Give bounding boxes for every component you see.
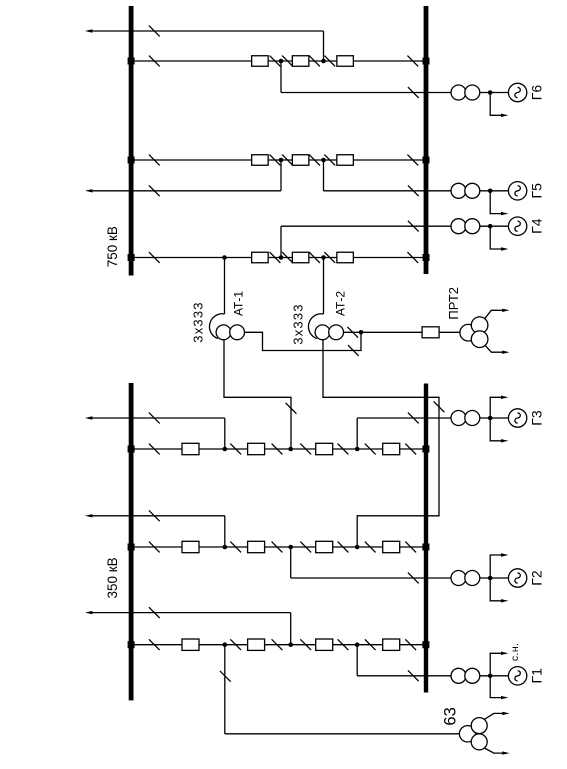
junction 750kV bay2 bus1 [128, 157, 135, 164]
disconnector АТ-2 LV [347, 327, 358, 338]
svg-text:Г4: Г4 [529, 218, 545, 234]
svg-text:АТ-2: АТ-2 [333, 291, 347, 316]
node 750kV bay3 tap1 [279, 255, 284, 260]
wire G2 riser [290, 547, 292, 578]
arrow ПРТ2 down [502, 351, 509, 354]
node Г6 aux tap [488, 90, 493, 95]
wire АТ-1 LV lead [244, 332, 361, 350]
transformer Г2 winding 2 [465, 571, 480, 586]
wire 750kV bay1 row [131, 60, 426, 62]
wire АТ-1 HV riser [224, 258, 226, 315]
breaker 350kV bay1 Q1 [182, 443, 199, 454]
junction 350kV bay2 bus2 [422, 544, 429, 551]
wire W5 riser [290, 613, 292, 645]
transformer Г6 winding 2 [465, 85, 480, 100]
breaker 750kV bay2 Q1 [252, 155, 269, 166]
disconnector 750kV bay2 bus2 [407, 155, 418, 166]
wire line feeder W5 [88, 612, 291, 614]
busbar 750kV system 2 (right) [424, 6, 429, 274]
arrow 63 down [502, 751, 509, 754]
arrow Г1 aux up [501, 652, 508, 655]
generator Г4 circle [508, 217, 526, 235]
generator Г6 circle [508, 83, 526, 101]
autotransformer АТ-1 series hook [209, 314, 224, 339]
disconnector 350kV bay3 Q3 left [300, 639, 311, 650]
disconnector 350kV bay2 Q3 right [338, 542, 349, 553]
disconnector 350kV bay1 Q4 left [365, 444, 376, 455]
junction 350kV bay3 bus2 [422, 641, 429, 648]
transformer Г4 winding 1 [451, 219, 466, 234]
autotransformer АТ-2 winding 1 [315, 325, 330, 340]
breaker 750kV bay1 Q3 [337, 56, 354, 67]
disconnector 63 [220, 671, 231, 682]
wire W4 riser [224, 516, 226, 547]
wire G1 riser [356, 645, 358, 676]
disconnector 750kV bay2 Q2 right [309, 155, 320, 166]
generator Г2 circle [508, 569, 526, 587]
wire 750kV bay2 row [131, 159, 426, 161]
node 350kV bay2 tap3 [355, 545, 360, 550]
node 350kV bay1 tap3 [355, 447, 360, 452]
junction 750kV bay3 bus1 [128, 254, 135, 261]
disconnector 750kV bay3 Q1 right [270, 252, 281, 263]
node 750kV bay1 tap1 [279, 59, 284, 64]
node 350kV bay1 tap1 [223, 447, 228, 452]
autotransformer АТ-1 winding 2 [230, 325, 245, 340]
arrow Г4 aux down [501, 247, 508, 250]
svg-text:350 кВ: 350 кВ [105, 557, 120, 598]
node Г4 aux tap [488, 224, 493, 229]
wire G3 riser [356, 418, 358, 449]
breaker 750kV bay3 Q3 [337, 252, 354, 263]
transformer Г5 winding 2 [465, 183, 480, 198]
disconnector 350kV bay2 bus2 [405, 542, 416, 553]
disconnector 350kV bay1 bus1 [149, 444, 160, 455]
generator Г3 sine symbol [515, 413, 520, 423]
disconnector 350kV bay3 Q2 right [272, 639, 283, 650]
wire generator Г2 lead [291, 577, 452, 579]
disconnector 350kV bay3 bus1 [149, 639, 160, 650]
disconnector 350kV bay3 Q3 right [338, 639, 349, 650]
wire Г2 transformer to generator [480, 577, 509, 579]
wire 350kV bay2 row [131, 546, 426, 548]
wire line feeder W1 [88, 30, 324, 32]
transformer ПРТ2 winding 2 [471, 317, 488, 334]
disconnector Г5 [408, 185, 419, 196]
wire G4 tap riser [280, 226, 282, 257]
breaker 750kV bay3 Q2 [292, 252, 309, 263]
autotransformer АТ-1 winding 1 [216, 325, 231, 340]
svg-text:АТ-1: АТ-1 [232, 291, 246, 316]
wire Г3 transformer to generator [480, 417, 509, 419]
transformer 63 winding 1 [459, 726, 475, 742]
wire Г1 aux branch up [490, 653, 502, 676]
wire 63 output up [484, 713, 503, 719]
node 750kV bay1 tap2 [321, 59, 326, 64]
wire АТ-2 HV riser [323, 258, 325, 315]
breaker 750kV bay1 Q1 [252, 56, 269, 67]
disconnector Г3 [408, 413, 419, 424]
breaker 750kV bay2 Q2 [292, 155, 309, 166]
svg-text:750 кВ: 750 кВ [105, 226, 120, 267]
wire W1 riser to tap2 [323, 31, 325, 61]
disconnector 750kV bay2 Q2 left [282, 155, 293, 166]
wire Г2 aux branch down [490, 578, 502, 601]
disconnector 750kV bay1 Q1 right [270, 56, 281, 67]
disconnector Г1 [408, 670, 419, 681]
disconnector АТ-2 MV [434, 401, 445, 412]
wire Г6 aux branch down [490, 93, 502, 116]
transformer Г1 winding 2 [465, 668, 480, 683]
arrow Г1 aux down [501, 696, 508, 699]
svg-text:Г1: Г1 [529, 668, 545, 684]
arrow Г3 aux down [501, 439, 508, 442]
disconnector 350kV bay3 bus2 [405, 639, 416, 650]
autotransformer АТ-2 series hook [308, 314, 323, 339]
breaker 750kV bay2 Q3 [337, 155, 354, 166]
wire Г5 transformer to generator [480, 190, 509, 192]
disconnector line W5 [149, 607, 160, 618]
disconnector 750kV bay1 Q2 left [282, 56, 293, 67]
disconnector 750kV bay3 bus2 [407, 252, 418, 263]
disconnector 750kV bay3 bus1 [149, 252, 160, 263]
disconnector 350kV bay1 Q3 right [338, 444, 349, 455]
wire line feeder W2 [88, 190, 281, 192]
disconnector 350kV bay2 Q4 left [365, 542, 376, 553]
svg-text:Г3: Г3 [529, 410, 545, 426]
breaker ПРТ2 [422, 327, 439, 338]
generator Г1 sine symbol [515, 671, 520, 681]
breaker 350kV bay2 Q2 [248, 541, 265, 552]
wire W3 riser [224, 418, 226, 449]
breaker 350kV bay1 Q3 [316, 443, 333, 454]
breaker 350kV bay2 Q1 [182, 541, 199, 552]
disconnector 750kV bay1 bus2 [407, 56, 418, 67]
node 350kV bay3 tap1 [223, 642, 228, 647]
wire G5 tap riser [323, 160, 325, 191]
breaker 350kV bay3 Q4 [383, 639, 400, 650]
disconnector 350kV bay2 Q3 left [300, 542, 311, 553]
disconnector 750kV bay1 Q3 left [324, 56, 335, 67]
wire ПРТ2 output down [485, 345, 503, 352]
disconnector 350kV bay1 Q2 right [272, 444, 283, 455]
svg-text:Г5: Г5 [529, 183, 545, 199]
transformer 63 winding 2 [471, 718, 487, 734]
wire aux transformer 63 lead [225, 733, 460, 735]
generator Г1 circle [508, 667, 526, 685]
svg-text:3х333: 3х333 [190, 301, 205, 342]
disconnector Г2 [408, 573, 419, 584]
arrow line W1 [85, 29, 92, 32]
wire АТ-2 MV lead [323, 340, 439, 548]
svg-text:3х333: 3х333 [291, 303, 306, 344]
breaker 350kV bay1 Q4 [383, 443, 400, 454]
breaker 350kV bay2 Q3 [316, 541, 333, 552]
svg-text:ПРТ2: ПРТ2 [446, 287, 461, 320]
disconnector 350kV bay2 Q2 left [230, 542, 241, 553]
disconnector 350kV bay1 Q3 left [300, 444, 311, 455]
disconnector line W1 [149, 26, 160, 37]
busbar 350kV system 1 (left) [129, 383, 134, 700]
junction 350kV bay1 bus1 [128, 446, 135, 453]
disconnector 350kV bay1 Q2 left [230, 444, 241, 455]
wire Г1 aux branch down [490, 676, 502, 698]
breaker 350kV bay3 Q2 [248, 639, 265, 650]
svg-text:Г6: Г6 [529, 85, 545, 101]
node Г2 aux tap [488, 576, 493, 581]
wire Г1 transformer to generator [480, 675, 509, 677]
arrow Г3 aux up [501, 396, 508, 399]
wire breaker to ПРТ2 [439, 331, 460, 333]
generator Г4 sine symbol [515, 221, 520, 231]
arrow line W4 [85, 514, 92, 517]
disconnector 750kV bay2 bus1 [149, 155, 160, 166]
disconnector 350kV bay2 Q2 right [272, 542, 283, 553]
junction 350kV bay2 bus1 [128, 544, 135, 551]
node 750kV bay3 tap2 [321, 255, 326, 260]
transformer Г1 winding 1 [451, 668, 466, 683]
breaker 750kV bay1 Q2 [292, 56, 309, 67]
generator Г6 sine symbol [515, 87, 520, 97]
arrow Г2 aux up [501, 553, 508, 556]
wire АТ-1 MV lead [224, 340, 291, 450]
node 350kV bay3 tap3 [355, 642, 360, 647]
generator Г2 sine symbol [515, 573, 520, 583]
disconnector 750kV bay3 Q2 right [309, 252, 320, 263]
arrow 63 up [502, 712, 509, 715]
wire Г5 aux branch down [490, 191, 502, 214]
wire feeder W2 riser [280, 160, 282, 191]
arrow line W5 [85, 611, 92, 614]
disconnector Г6 [408, 87, 419, 98]
junction 350kV bay3 bus1 [128, 641, 135, 648]
node 350kV bay1 tap2 [288, 447, 293, 452]
disconnector line W3 [149, 413, 160, 424]
wire generator Г6 lead [281, 92, 451, 94]
disconnector 350kV bay3 Q4 left [365, 639, 376, 650]
wire line feeder W4 [88, 515, 225, 517]
disconnector 350kV bay3 Q2 left [230, 639, 241, 650]
generator Г3 circle [508, 409, 526, 427]
node Г5 aux tap [488, 189, 493, 194]
disconnector 750kV bay2 Q1 right [270, 155, 281, 166]
disconnector line W2 [149, 185, 160, 196]
wire line feeder W3 [88, 417, 225, 419]
busbar 350kV system 2 (right) [424, 384, 428, 693]
generator Г5 sine symbol [515, 186, 520, 196]
node 350kV bay2 tap1 [223, 545, 228, 550]
wire G6 tap riser [280, 61, 282, 93]
transformer Г4 winding 2 [465, 219, 480, 234]
arrow ПРТ2 up [502, 309, 509, 312]
transformer Г5 winding 1 [451, 183, 466, 198]
arrow Г6 aux down [501, 114, 508, 117]
transformer Г3 winding 2 [465, 411, 480, 426]
transformer ПРТ2 winding 3 [471, 331, 488, 348]
wire АТ-2 LV lead [344, 331, 422, 333]
autotransformer АТ-2 winding 2 [329, 325, 344, 340]
disconnector 750kV bay3 Q2 left [282, 252, 293, 263]
transformer Г6 winding 1 [451, 85, 466, 100]
svg-text:с.н.: с.н. [509, 643, 521, 661]
breaker 350kV bay2 Q4 [383, 541, 400, 552]
disconnector 750kV bay3 Q3 left [324, 252, 335, 263]
wire Г4 transformer to generator [480, 225, 509, 227]
junction 750kV bay1 bus2 [423, 58, 430, 65]
node AT-1 tap [222, 255, 227, 260]
arrow Г2 aux down [501, 599, 508, 602]
wire generator Г5 lead [324, 190, 452, 192]
disconnector 350kV bay1 bus2 [405, 444, 416, 455]
breaker 350kV bay3 Q1 [182, 639, 199, 650]
junction 750kV bay2 bus2 [423, 157, 430, 164]
junction 350kV bay1 bus2 [422, 446, 429, 453]
breaker 350kV bay1 Q2 [248, 443, 265, 454]
svg-text:63: 63 [442, 707, 460, 725]
wire 63 output down [484, 748, 503, 753]
disconnector Г4 [408, 221, 419, 232]
arrow Г5 aux down [501, 212, 508, 215]
wire 750kV bay3 row [131, 257, 426, 259]
wire aux transformer 63 lead riser [224, 645, 226, 734]
node 750kV bay2 tap1 [279, 158, 284, 163]
wire Г2 aux branch up [490, 555, 502, 578]
junction 750kV bay3 bus2 [423, 254, 430, 261]
breaker 350kV bay3 Q3 [316, 639, 333, 650]
generator Г5 circle [508, 182, 526, 200]
node 750kV bay2 tap2 [321, 158, 326, 163]
wire Г4 aux branch down [490, 226, 502, 249]
disconnector 750kV bay2 Q3 left [324, 155, 335, 166]
wire Г3 aux branch down [490, 418, 502, 441]
disconnector 350kV bay2 bus1 [149, 542, 160, 553]
svg-text:Г2: Г2 [529, 570, 545, 586]
transformer ПРТ2 winding 1 [460, 324, 477, 341]
wire generator Г3 lead [357, 417, 451, 419]
junction 750kV bay1 bus1 [128, 58, 135, 65]
node 350kV bay3 tap2 [288, 642, 293, 647]
disconnector 750kV bay1 bus1 [149, 56, 160, 67]
arrow line W2 [85, 189, 92, 192]
node LV tie [359, 330, 364, 335]
disconnector line W4 [149, 510, 160, 521]
wire ПРТ2 output up [485, 310, 503, 318]
disconnector 750kV bay1 Q2 right [309, 56, 320, 67]
busbar 750kV system 1 (left) [129, 6, 134, 276]
arrow line W3 [85, 416, 92, 419]
wire generator Г4 lead [281, 225, 451, 227]
wire 350kV bay3 row [131, 644, 426, 646]
wire generator Г1 lead [357, 675, 451, 677]
transformer Г3 winding 1 [451, 411, 466, 426]
node Г1 aux tap [488, 674, 493, 679]
node Г3 aux tap [488, 416, 493, 421]
wire 350kV bay1 row [131, 448, 426, 450]
node 350kV bay2 tap2 [288, 545, 293, 550]
wire Г6 transformer to generator [480, 92, 509, 94]
transformer 63 winding 3 [471, 734, 487, 750]
disconnector АТ-1 LV [348, 345, 359, 356]
breaker 750kV bay3 Q1 [252, 252, 269, 263]
disconnector АТ-1 MV [286, 403, 297, 414]
wire Г3 aux branch up [490, 397, 502, 418]
transformer Г2 winding 1 [451, 571, 466, 586]
